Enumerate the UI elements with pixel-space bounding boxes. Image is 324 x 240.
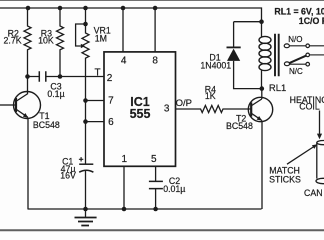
svg-text:O/P: O/P — [176, 98, 192, 109]
svg-text:N/O: N/O — [288, 35, 302, 44]
svg-text:CAN: CAN — [304, 188, 323, 198]
svg-text:BC548: BC548 — [226, 121, 253, 131]
svg-text:1K: 1K — [205, 91, 216, 101]
svg-text:7: 7 — [108, 95, 114, 106]
svg-text:5: 5 — [151, 154, 157, 165]
svg-text:1: 1 — [122, 154, 128, 165]
svg-text:3: 3 — [164, 104, 170, 115]
svg-text:0.1µ: 0.1µ — [47, 89, 64, 99]
svg-text:2.7K: 2.7K — [4, 36, 22, 46]
svg-text:1M: 1M — [95, 33, 107, 43]
svg-text:0.01µ: 0.01µ — [163, 184, 185, 194]
svg-text:16V: 16V — [60, 170, 76, 180]
svg-text:STICKS: STICKS — [269, 175, 301, 185]
svg-text:1C/O RE: 1C/O RE — [299, 16, 324, 26]
svg-text:6: 6 — [108, 117, 114, 128]
svg-text:HEATING: HEATING — [290, 95, 324, 105]
svg-text:10K: 10K — [38, 36, 54, 46]
svg-text:2: 2 — [107, 73, 113, 84]
svg-text:RL1: RL1 — [269, 83, 286, 94]
svg-text:8: 8 — [152, 56, 158, 67]
svg-text:T: T — [94, 67, 100, 78]
svg-text:N/C: N/C — [289, 67, 303, 76]
svg-text:4: 4 — [121, 56, 127, 67]
svg-text:BC548: BC548 — [33, 120, 60, 130]
svg-text:1N4001: 1N4001 — [200, 61, 231, 71]
svg-text:555: 555 — [130, 107, 151, 121]
